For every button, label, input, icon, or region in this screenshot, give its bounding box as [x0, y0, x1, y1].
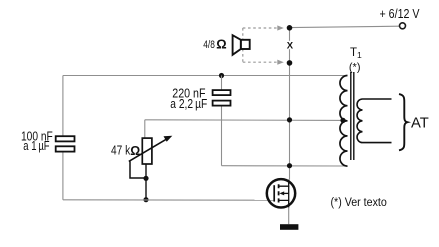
node: junction dot on drain rail at y=119.8 [287, 117, 292, 122]
svg-text:a 2,2 µF: a 2,2 µF [170, 96, 207, 111]
wire: left rail vertical below C1 [62, 152, 64, 200]
capacitor C2 220nF-2.2uF leads [221, 76, 223, 91]
wire: bottom gate line y=200.1 [63, 199, 274, 201]
svg-text:Ω: Ω [130, 144, 140, 158]
wire: horizontal top line y=75.5 (left rail to transformer primary top) [63, 75, 348, 77]
arrowhead: potentiometer arrow tip [164, 136, 173, 142]
potentiometer R1 arrow [129, 139, 167, 162]
node: junction dot at 220nF cap top [219, 73, 224, 78]
arrowhead: dashed arrow to X bottom [277, 60, 284, 65]
transistor Q1 source connector [279, 200, 289, 207]
transistor Q1 body arrow [281, 192, 289, 194]
svg-text:a 1 µF: a 1 µF [23, 138, 49, 153]
wire: lower horizontal line y=165.7 (cap bottom to drain and primary bottom) [222, 165, 348, 167]
terminal: +6/12V open circle [400, 23, 406, 29]
wire: source lead down to ground [288, 207, 290, 224]
transistor Q1 internal right rail [288, 186, 290, 200]
wire: middle horizontal line y=119.8 (pot top to transformer center tap) [145, 119, 346, 122]
node: X top junction dot [287, 25, 293, 31]
node: pot to gate-line junction dot [143, 197, 148, 202]
wire: potentiometer bottom lead down to gate line [145, 164, 147, 200]
wire: C2 bottom lead crossing middle line down to y=165.7 [221, 106, 223, 166]
svg-text:X: X [287, 40, 294, 51]
node: wiper/bottom-lead junction dot [143, 176, 148, 181]
svg-text:T1: T1 [350, 47, 362, 60]
transformer T1 core [351, 72, 354, 160]
node: X bottom junction dot [287, 60, 293, 66]
svg-text:(*): (*) [349, 61, 361, 73]
wire: main vertical drain rail x=289.5 [289, 28, 291, 180]
transistor Q1 channel segments [278, 184, 280, 202]
svg-text:Ω: Ω [216, 37, 226, 51]
node: junction dot on drain rail at y=165.7 [287, 163, 292, 168]
node: transformer center tap dot [340, 118, 345, 123]
wire: left rail vertical x=62.9 [62, 76, 64, 137]
ground symbol bar [280, 224, 298, 230]
svg-text:(*) Ver texto: (*) Ver texto [331, 195, 387, 209]
speaker: 4/8 ohm loudspeaker symbol [233, 35, 250, 55]
wire: dashed speaker connection lines [243, 28, 280, 62]
wire: top supply rail from node X top to +6/12V terminal [290, 26, 400, 27]
label: X (speaker insertion point) [286, 41, 294, 49]
arrowhead: body arrow pointing to channel [279, 191, 284, 195]
potentiometer R1 47k body [142, 138, 152, 164]
svg-text:+ 6/12 V: + 6/12 V [380, 6, 420, 21]
svg-text:47 k: 47 k [111, 144, 131, 158]
transformer T1 secondary winding [357, 99, 391, 143]
wire: potentiometer top lead [145, 120, 146, 138]
arrowhead: dashed arrow to X top [277, 25, 284, 30]
svg-text:AT: AT [411, 115, 429, 131]
capacitor C2 220nF-2.2uF plates [213, 90, 231, 106]
transistor Q1 gate bar [273, 185, 275, 201]
transformer T1 primary winding [340, 76, 348, 167]
transistor Q1 drain connector [279, 180, 289, 187]
svg-text:4/8: 4/8 [203, 39, 215, 51]
capacitor C1 100nF-1uF [56, 136, 75, 151]
brace: AT output brace [399, 94, 407, 150]
transistor Q1 MOSFET envelope circle [267, 179, 295, 207]
wire: potentiometer wiper return [130, 161, 146, 178]
